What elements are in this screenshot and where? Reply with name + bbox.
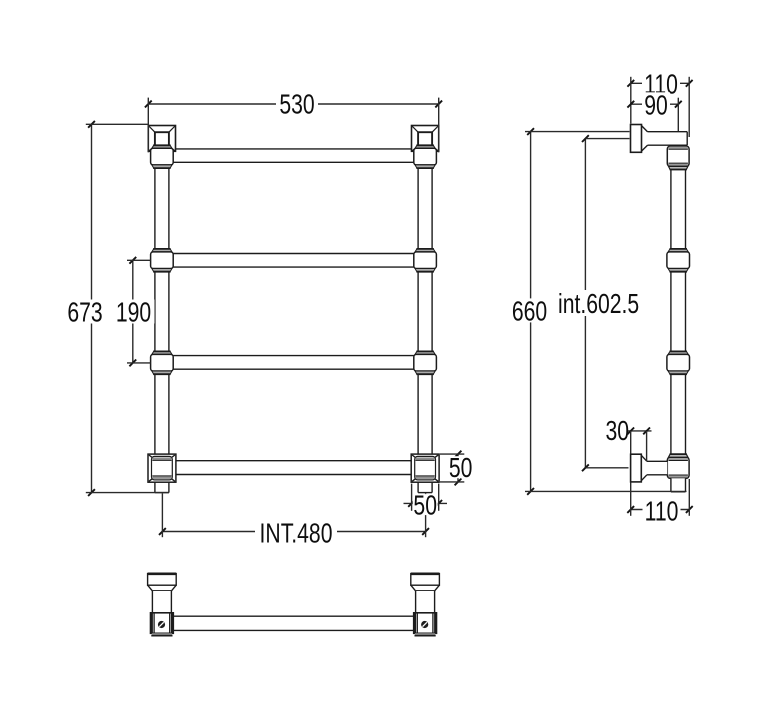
front view: rail bar 3 <box>173 356 414 370</box>
dimension 530 width line <box>148 103 438 105</box>
front view: left collar at bar 2 <box>152 249 172 252</box>
dimension 90 label <box>642 92 670 116</box>
front view: left top collar fitting <box>152 145 172 148</box>
bottom view: rail bar <box>173 616 414 630</box>
dimension 110 top extension lines <box>630 77 632 124</box>
dimension 90 line <box>631 103 679 105</box>
side view: bottom arm tube <box>647 461 667 475</box>
front view: left collar at bar 3 <box>152 351 172 354</box>
dimension 110 bottom label <box>643 498 681 522</box>
front view: right post bottom stub <box>418 482 432 492</box>
side view: collar at bar3 level <box>668 351 688 354</box>
svg-text:INT.480: INT.480 <box>260 519 333 549</box>
dimension 50 flange height label <box>447 456 474 478</box>
dimension 190 line <box>132 260 134 363</box>
dimension 530 extension lines <box>147 98 149 153</box>
dimension 530 label <box>276 91 318 115</box>
svg-text:660: 660 <box>512 297 547 327</box>
front view: rail bar 2 <box>173 254 414 268</box>
dimension 50 flange width label <box>413 494 438 515</box>
side view: top cone <box>642 126 648 152</box>
dimension 110 top label <box>642 71 680 95</box>
front view: right top square cap <box>412 126 439 152</box>
front view: right post <box>418 168 432 249</box>
dimension int.602.5 extension lines <box>585 138 629 140</box>
bottom view: left wall post <box>148 574 177 586</box>
dimension INT.480 extension lines <box>161 493 163 537</box>
dimension 50 flange height line <box>457 454 459 482</box>
side view: top arm tube <box>648 132 688 146</box>
side view: top wall flange <box>631 125 642 153</box>
dimension 30 extension lines <box>630 431 632 454</box>
dimension 50 flange width extension lines <box>411 484 413 511</box>
dimension INT.480 line <box>162 531 425 533</box>
svg-text:90: 90 <box>644 91 668 121</box>
svg-text:30: 30 <box>606 416 630 446</box>
svg-text:50: 50 <box>449 454 473 484</box>
side view: bottom stub <box>671 478 686 492</box>
dimension 30 line <box>628 430 652 432</box>
front view: left post bottom stub <box>155 482 169 492</box>
bottom view: right wall post <box>411 574 440 586</box>
svg-text:110: 110 <box>645 497 679 527</box>
dimension int.602.5 line <box>584 139 586 468</box>
dimension 90 extension line <box>677 98 679 131</box>
dimension 673 label <box>64 300 106 324</box>
dimension 190 extension lines <box>127 259 151 261</box>
dimension 50 flange width line <box>404 502 448 504</box>
dimension 660 extension lines <box>525 131 630 133</box>
svg-text:673: 673 <box>67 298 102 328</box>
dimension INT.480 label <box>255 520 337 544</box>
front view: right bottom wall flange <box>411 454 439 482</box>
dimension int.602.5 label <box>555 290 643 316</box>
svg-text:530: 530 <box>279 90 314 120</box>
dimension 673 extension lines <box>86 123 148 125</box>
dimension 673 height line <box>91 124 93 492</box>
dimension 110 bottom line <box>631 509 690 511</box>
side view: collar at bar2 level <box>668 249 688 252</box>
front view: right collar at bar 2 <box>415 249 435 252</box>
front view: left post <box>155 168 169 249</box>
svg-text:int.602.5: int.602.5 <box>558 289 639 319</box>
dimension 660 line <box>530 132 532 492</box>
front view: bottom rail bar 4 <box>172 461 415 475</box>
svg-text:50: 50 <box>413 491 437 521</box>
side view: post <box>671 170 686 249</box>
side view: bottom elbow block <box>667 457 689 478</box>
front view: right top collar fitting <box>415 145 435 148</box>
dimension 50 flange height extension lines <box>440 453 464 455</box>
front view: left top square cap <box>148 126 175 152</box>
svg-text:190: 190 <box>116 298 151 328</box>
front view: left bottom wall flange <box>148 454 176 482</box>
dimension 190 label <box>113 300 155 324</box>
side view: bottom cone <box>641 455 647 480</box>
dimension 110 top line <box>631 82 689 84</box>
front view: right collar at bar 3 <box>415 351 435 354</box>
dimension 660 label <box>509 298 551 322</box>
front view: top rail bar 1 <box>173 149 414 162</box>
dimension 110 bottom extension lines <box>630 482 632 515</box>
side view: top elbow block <box>667 146 689 166</box>
side view: bottom wall flange <box>631 454 642 482</box>
